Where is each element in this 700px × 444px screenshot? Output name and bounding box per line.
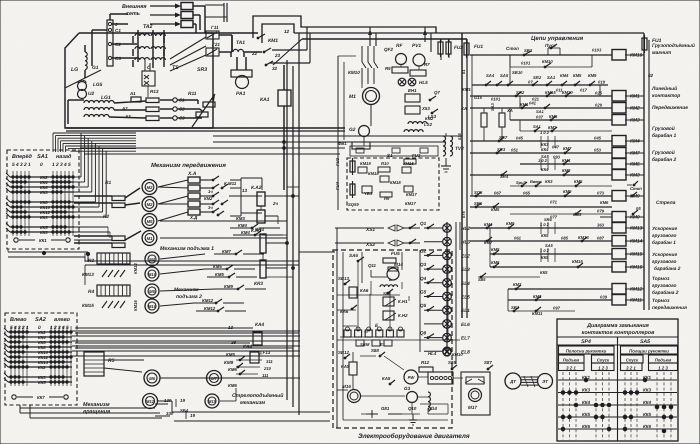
- svg-text:037: 037: [536, 115, 544, 120]
- svg-text:R7: R7: [424, 62, 430, 67]
- svg-text:КМ18: КМ18: [368, 171, 379, 176]
- svg-text:311: 311: [266, 359, 273, 364]
- svg-text:ЭТ: ЭТ: [542, 379, 548, 384]
- svg-text:061: 061: [514, 236, 522, 241]
- svg-text:SA6: SA6: [349, 253, 358, 258]
- svg-text:12: 12: [284, 29, 290, 34]
- svg-text:КМ5: КМ5: [226, 352, 235, 357]
- svg-text:М1: М1: [147, 236, 153, 241]
- svg-text:G3: G3: [404, 386, 411, 391]
- svg-text:363: 363: [597, 223, 605, 228]
- svg-text:23: 23: [274, 53, 281, 58]
- svg-text:КМ3: КМ3: [236, 216, 245, 221]
- svg-text:3: 3: [60, 162, 63, 168]
- svg-text:SQ59: SQ59: [348, 202, 359, 207]
- svg-text:КМ2: КМ2: [630, 106, 640, 112]
- svg-text:М17: М17: [468, 405, 477, 410]
- svg-text:087: 087: [597, 236, 605, 241]
- svg-text:КМ12: КМ12: [204, 306, 216, 311]
- svg-text:подъзма 2: подъзма 2: [176, 294, 202, 300]
- svg-text:Ускорение: Ускорение: [652, 226, 677, 232]
- svg-text:067: 067: [494, 191, 502, 196]
- svg-text:3 2 1: 3 2 1: [626, 366, 636, 371]
- svg-text:R10: R10: [381, 161, 389, 166]
- svg-text:SB3: SB3: [524, 48, 533, 53]
- svg-text:КА1: КА1: [260, 97, 270, 103]
- svg-text:Подъем: Подъем: [655, 358, 672, 363]
- svg-text:Вперёд: Вперёд: [12, 154, 32, 160]
- svg-text:сеть: сеть: [126, 11, 140, 17]
- svg-text:210: 210: [263, 366, 272, 371]
- svg-text:КК4: КК4: [541, 167, 549, 172]
- svg-text:М5: М5: [149, 289, 155, 294]
- svg-text:39: 39: [231, 340, 237, 345]
- svg-text:SА1: SА1: [533, 124, 542, 129]
- svg-text:2ч: 2ч: [272, 201, 278, 206]
- svg-text:SB13: SB13: [338, 276, 350, 281]
- svg-text:FU5: FU5: [391, 251, 400, 256]
- svg-text:SА1: SА1: [547, 75, 556, 80]
- svg-text:SВ10: SВ10: [512, 70, 523, 75]
- svg-text:КМ9: КМ9: [506, 221, 515, 226]
- svg-text:5: 5: [10, 325, 13, 331]
- svg-text:SА3: SА3: [490, 102, 495, 111]
- svg-text:041: 041: [529, 101, 537, 106]
- svg-text:FU3: FU3: [412, 153, 421, 158]
- svg-text:магнит: магнит: [652, 51, 672, 56]
- svg-text:КК2: КК2: [38, 365, 46, 370]
- svg-text:КК6: КК6: [582, 424, 591, 429]
- svg-text:19: 19: [190, 413, 195, 418]
- svg-text:барабана 2: барабана 2: [652, 290, 679, 296]
- svg-text:КМ5: КМ5: [215, 272, 224, 277]
- svg-text:G2: G2: [349, 127, 356, 133]
- svg-text:130: 130: [164, 398, 172, 403]
- svg-text:13: 13: [242, 188, 248, 193]
- svg-text:EL7: EL7: [461, 336, 470, 342]
- svg-text:КК4: КК4: [582, 400, 591, 405]
- svg-text:R13: R13: [150, 89, 159, 94]
- svg-text:5: 5: [66, 325, 69, 331]
- svg-text:TA2: TA2: [143, 24, 153, 30]
- svg-text:контактов контроллеров: контактов контроллеров: [582, 330, 655, 336]
- svg-text:G2: G2: [420, 248, 427, 253]
- svg-text:К.А2: К.А2: [251, 185, 262, 191]
- svg-text:L: L: [389, 277, 392, 282]
- svg-text:КМ10: КМ10: [348, 70, 360, 75]
- svg-text:М7: М7: [211, 376, 217, 381]
- svg-text:PA1: PA1: [236, 91, 246, 97]
- svg-text:Полщии рукоятки: Полщии рукоятки: [629, 349, 669, 354]
- svg-text:КМ4: КМ4: [241, 230, 250, 235]
- svg-text:М15: М15: [208, 399, 217, 404]
- svg-text:грузового: грузового: [652, 260, 677, 265]
- svg-text:КК5: КК5: [540, 270, 548, 275]
- svg-text:019: 019: [598, 80, 606, 85]
- svg-text:Х.А: Х.А: [187, 171, 197, 177]
- svg-text:085: 085: [561, 236, 569, 241]
- svg-text:барабана 2: барабана 2: [654, 266, 681, 272]
- svg-text:КК5: КК5: [582, 412, 591, 417]
- svg-text:FU2: FU2: [454, 45, 463, 51]
- svg-text:Спуск: Спуск: [626, 358, 639, 363]
- svg-text:Q10: Q10: [408, 406, 417, 411]
- svg-text:Q,F13: Q,F13: [258, 350, 271, 355]
- svg-text:Q11: Q11: [368, 263, 377, 268]
- svg-text:YВ3: YВ3: [364, 191, 373, 196]
- svg-text:Q7: Q7: [434, 90, 440, 95]
- svg-text:КМ7: КМ7: [630, 151, 640, 157]
- svg-text:Механизм: Механизм: [83, 402, 110, 408]
- svg-text:КМ9: КМ9: [224, 284, 233, 289]
- svg-text:FU1: FU1: [474, 44, 483, 50]
- svg-text:КМ8: КМ8: [491, 260, 500, 265]
- svg-text:3ч: 3ч: [208, 205, 213, 210]
- svg-text:1 2 3: 1 2 3: [658, 366, 668, 371]
- svg-text:КМ5: КМ5: [491, 207, 500, 212]
- svg-text:1: 1: [52, 162, 55, 168]
- svg-text:Механизм передвижения: Механизм передвижения: [151, 162, 226, 169]
- svg-text:КК4: КК4: [541, 147, 549, 152]
- svg-text:HL4: HL4: [428, 351, 437, 356]
- svg-text:КМ10: КМ10: [452, 352, 463, 357]
- svg-text:Полосни рукоятки: Полосни рукоятки: [566, 349, 607, 354]
- svg-text:S87: S87: [484, 360, 492, 365]
- svg-text:ДТ: ДТ: [509, 379, 516, 384]
- svg-text:КМ17: КМ17: [405, 201, 416, 206]
- svg-text:1 0 2: 1 0 2: [540, 130, 550, 135]
- svg-text:FU3: FU3: [335, 157, 340, 166]
- svg-text:SА4: SА4: [486, 73, 495, 78]
- svg-text:КК1: КК1: [39, 238, 47, 243]
- svg-text:R11: R11: [188, 91, 197, 97]
- svg-text:КМ9: КМ9: [224, 360, 234, 365]
- svg-text:КМ15: КМ15: [572, 259, 583, 264]
- svg-text:R5: R5: [385, 66, 391, 71]
- svg-text:КМ9: КМ9: [630, 215, 640, 221]
- svg-text:071: 071: [550, 200, 558, 205]
- svg-text:КМ7: КМ7: [222, 249, 231, 254]
- svg-text:01: 01: [461, 69, 466, 74]
- svg-text:Q1: Q1: [420, 221, 427, 226]
- svg-text:029: 029: [595, 103, 603, 108]
- svg-text:ЕН1: ЕН1: [408, 88, 417, 93]
- svg-text:КМ4: КМ4: [630, 139, 640, 145]
- svg-text:R12: R12: [421, 360, 430, 365]
- svg-text:SB12: SB12: [338, 350, 350, 355]
- svg-text:КМ19: КМ19: [360, 161, 371, 166]
- svg-text:051: 051: [511, 148, 519, 153]
- svg-text:вращения: вращения: [83, 409, 111, 415]
- svg-text:КА6: КА6: [360, 288, 369, 293]
- svg-text:1: 1: [28, 162, 31, 168]
- svg-text:Тормоз: Тормоз: [652, 276, 670, 282]
- svg-text:Стрелоподъёмный: Стрелоподъёмный: [232, 393, 284, 399]
- svg-text:SA2: SA2: [35, 317, 47, 323]
- svg-text:КМ4: КМ4: [560, 73, 569, 78]
- svg-text:М10: М10: [148, 272, 157, 277]
- svg-text:ФВ1: ФВ1: [338, 141, 347, 146]
- svg-text:111: 111: [262, 373, 269, 378]
- svg-text:М2: М2: [147, 202, 153, 207]
- svg-text:М6: М6: [149, 376, 155, 381]
- svg-text:07: 07: [528, 80, 533, 85]
- svg-text:КМ6: КМ6: [228, 367, 237, 372]
- svg-text:КМ3: КМ3: [630, 173, 640, 179]
- svg-text:Влево: Влево: [10, 317, 27, 323]
- svg-text:R5: R5: [108, 358, 115, 364]
- svg-text:Г11: Г11: [211, 25, 219, 30]
- svg-text:079: 079: [597, 209, 605, 214]
- svg-text:Линейный: Линейный: [651, 86, 677, 92]
- svg-text:Стрела: Стрела: [656, 200, 676, 206]
- svg-text:093: 093: [553, 155, 561, 160]
- svg-text:механизм: механизм: [240, 400, 265, 406]
- svg-text:КМ15: КМ15: [630, 252, 643, 258]
- svg-text:3 2 1: 3 2 1: [566, 366, 576, 371]
- svg-text:4: 4: [63, 162, 67, 168]
- svg-text:Грузовой: Грузовой: [652, 126, 675, 132]
- svg-text:1ч: 1ч: [208, 189, 213, 194]
- svg-text:Передвижение: Передвижение: [652, 105, 688, 111]
- svg-text:5: 5: [12, 162, 15, 168]
- svg-text:G81: G81: [381, 406, 390, 411]
- svg-text:Тормоз: Тормоз: [652, 298, 670, 304]
- svg-text:КА5: КА5: [382, 376, 391, 381]
- svg-text:LG5: LG5: [93, 82, 103, 88]
- svg-text:КМ13: КМ13: [630, 226, 643, 232]
- svg-text:Q8: Q8: [420, 331, 427, 336]
- svg-text:М5: М5: [147, 219, 153, 224]
- svg-text:3: 3: [18, 325, 21, 331]
- svg-text:КМ10: КМ10: [542, 59, 553, 64]
- svg-text:QF2: QF2: [384, 47, 393, 52]
- svg-text:КМ14: КМ14: [133, 263, 138, 274]
- svg-text:барабан 1: барабан 1: [652, 133, 677, 139]
- svg-text:КК6: КК6: [643, 424, 652, 429]
- svg-text:КА4: КА4: [255, 322, 264, 328]
- svg-text:Грузовой: Грузовой: [652, 150, 675, 156]
- svg-text:КМ10: КМ10: [630, 53, 643, 59]
- svg-text:КМ5: КМ5: [491, 247, 500, 252]
- svg-text:КМ3: КМ3: [630, 118, 640, 124]
- svg-text:039: 039: [600, 295, 608, 300]
- svg-text:КК7: КК7: [37, 395, 45, 400]
- svg-text:К.Н1: К.Н1: [398, 299, 408, 304]
- svg-text:02: 02: [648, 73, 654, 78]
- svg-text:HL5: HL5: [419, 80, 428, 85]
- svg-text:КМ12: КМ12: [202, 298, 214, 303]
- svg-text:0101: 0101: [491, 97, 501, 102]
- svg-text:1 2 3: 1 2 3: [598, 366, 608, 371]
- svg-text:Механизм подъэма 1: Механизм подъэма 1: [160, 246, 214, 252]
- svg-text:Электрооборудование двигателя: Электрооборудование двигателя: [358, 433, 470, 440]
- svg-text:A1: A1: [129, 91, 136, 96]
- svg-text:Г21: Г21: [212, 42, 220, 47]
- svg-text:Внешняя: Внешняя: [122, 4, 147, 10]
- svg-text:045: 045: [516, 136, 524, 141]
- svg-text:КМ16: КМ16: [133, 300, 138, 311]
- svg-text:G15: G15: [474, 95, 483, 100]
- svg-text:Х.Д: Х.Д: [189, 215, 198, 220]
- svg-text:025: 025: [595, 91, 603, 96]
- svg-text:G1: G1: [92, 65, 99, 71]
- svg-text:назад: назад: [56, 154, 72, 160]
- svg-text:Ускорение: Ускорение: [652, 252, 677, 258]
- svg-text:SR2: SR2: [533, 75, 542, 80]
- svg-text:КА4: КА4: [243, 344, 252, 350]
- svg-text:0: 0: [40, 162, 43, 168]
- svg-text:Спуск: Спуск: [597, 358, 610, 363]
- svg-text:влево: влево: [54, 317, 71, 323]
- svg-text:C1: C1: [115, 28, 121, 33]
- svg-text:017: 017: [580, 88, 588, 93]
- svg-text:073: 073: [597, 191, 605, 196]
- svg-text:КМ17: КМ17: [406, 192, 417, 197]
- svg-text:Q3: Q3: [420, 262, 427, 267]
- svg-text:КК5: КК5: [643, 412, 652, 417]
- svg-text:КК3: КК3: [40, 215, 48, 220]
- svg-text:SР4: SР4: [581, 339, 591, 345]
- svg-text:грузового: грузового: [652, 234, 677, 239]
- svg-text:1: 1: [26, 325, 29, 331]
- svg-text:ТV2: ТV2: [455, 146, 464, 152]
- svg-text:КМ12: КМ12: [630, 287, 643, 293]
- svg-text:Стоп: Стоп: [630, 186, 642, 191]
- svg-text:LS2: LS2: [424, 122, 433, 127]
- svg-text:TA1: TA1: [236, 40, 245, 46]
- svg-text:G5: G5: [420, 290, 427, 295]
- svg-text:КR3: КR3: [255, 227, 264, 233]
- svg-text:SА5: SА5: [640, 339, 650, 345]
- svg-text:ХА: ХА: [506, 108, 513, 113]
- svg-text:LG: LG: [71, 67, 78, 73]
- svg-text:КМ1: КМ1: [630, 94, 640, 100]
- svg-text:0103: 0103: [592, 48, 602, 53]
- svg-text:045: 045: [594, 136, 602, 141]
- svg-text:М2: М2: [147, 185, 153, 190]
- svg-text:КМ2: КМ2: [204, 196, 213, 201]
- svg-text:КМ18: КМ18: [390, 180, 401, 185]
- svg-text:035: 035: [457, 133, 462, 140]
- svg-text:3: 3: [58, 325, 61, 331]
- svg-text:КК4: КК4: [643, 400, 652, 405]
- svg-text:R2: R2: [103, 214, 109, 220]
- svg-text:Х53: Х53: [421, 106, 430, 111]
- svg-text:КМ11: КМ11: [532, 311, 543, 316]
- svg-text:R4: R4: [88, 289, 94, 295]
- svg-text:13: 13: [228, 325, 234, 330]
- svg-text:Вверх: Вверх: [530, 179, 543, 184]
- svg-text:Стоп: Стоп: [506, 46, 519, 51]
- svg-text:1: 1: [50, 325, 53, 331]
- svg-text:19: 19: [180, 398, 185, 403]
- svg-text:047: 047: [552, 145, 560, 150]
- svg-text:SA1: SA1: [37, 154, 48, 160]
- svg-text:КМ15: КМ15: [403, 161, 414, 166]
- svg-text:097: 097: [553, 306, 561, 311]
- svg-text:Грузоподъёмный: Грузоподъёмный: [652, 43, 695, 49]
- svg-text:EL6: EL6: [461, 322, 470, 328]
- svg-text:075: 075: [461, 211, 466, 218]
- svg-text:SR3: SR3: [197, 67, 207, 73]
- svg-text:2: 2: [55, 162, 59, 168]
- svg-text:Подъем: Подъем: [563, 358, 580, 363]
- svg-text:Q5: Q5: [420, 303, 427, 308]
- svg-text:передвижения: передвижения: [652, 305, 687, 311]
- svg-text:грузового: грузового: [652, 284, 677, 289]
- svg-text:R1: R1: [105, 180, 111, 186]
- svg-text:КМ6: КМ6: [600, 200, 609, 205]
- svg-text:КМ16: КМ16: [630, 265, 643, 271]
- svg-text:Цепи управления: Цепи управления: [531, 35, 584, 42]
- svg-text:М12: М12: [146, 399, 155, 404]
- svg-text:2: 2: [23, 162, 27, 168]
- svg-text:КК5: КК5: [38, 380, 46, 385]
- svg-text:SА1: SА1: [536, 109, 545, 114]
- svg-text:FU4: FU4: [335, 181, 340, 190]
- svg-text:U2: U2: [88, 91, 94, 97]
- svg-text:S85: S85: [448, 360, 456, 365]
- svg-text:32: 32: [272, 66, 278, 71]
- svg-text:065: 065: [523, 191, 531, 196]
- svg-text:КМ11: КМ11: [630, 298, 642, 304]
- svg-text:КК3: КК3: [40, 230, 48, 235]
- svg-text:К.Н2: К.Н2: [398, 313, 408, 318]
- svg-text:КК5: КК5: [541, 233, 549, 238]
- svg-text:Диаграмма замыкания: Диаграмма замыкания: [586, 323, 650, 329]
- svg-text:КМ9: КМ9: [588, 73, 597, 78]
- svg-text:КМ13: КМ13: [82, 272, 94, 277]
- svg-text:PV1: PV1: [412, 43, 421, 49]
- svg-text:LS3: LS3: [428, 114, 437, 119]
- svg-text:барабан 1: барабан 1: [652, 240, 676, 246]
- svg-text:КМ4: КМ4: [238, 223, 247, 228]
- svg-text:КК3: КК3: [643, 388, 652, 393]
- svg-text:SА5: SА5: [500, 73, 509, 78]
- svg-text:0101: 0101: [521, 61, 531, 66]
- svg-text:КМ7: КМ7: [484, 240, 493, 245]
- svg-text:КМ1: КМ1: [268, 38, 278, 44]
- svg-text:S1: S1: [387, 153, 393, 158]
- svg-text:КR3: КR3: [254, 281, 263, 287]
- svg-text:КК3: КК3: [545, 179, 553, 184]
- svg-text:контактор: контактор: [652, 94, 680, 99]
- svg-text:053: 053: [594, 148, 602, 153]
- svg-text:ХА: ХА: [460, 106, 467, 111]
- svg-text:5: 5: [68, 162, 71, 168]
- svg-text:1 0 2: 1 0 2: [538, 158, 548, 163]
- svg-text:КМ15: КМ15: [82, 303, 94, 308]
- svg-text:КК3: КК3: [582, 388, 591, 393]
- svg-text:Q4: Q4: [420, 276, 427, 281]
- svg-text:RF: RF: [396, 43, 403, 49]
- svg-text:S88: S88: [371, 348, 379, 353]
- svg-text:КМ2: КМ2: [513, 282, 522, 287]
- svg-text:КМ1: КМ1: [462, 87, 471, 92]
- svg-text:КМ6: КМ6: [228, 383, 237, 388]
- svg-text:М1: М1: [349, 94, 356, 100]
- svg-text:КМ5: КМ5: [573, 73, 582, 78]
- svg-text:КМ14: КМ14: [630, 239, 643, 245]
- svg-text:3: 3: [20, 162, 23, 168]
- svg-text:КК3: КК3: [40, 190, 48, 195]
- svg-text:барабан 2: барабан 2: [652, 157, 677, 163]
- svg-text:PW: PW: [408, 375, 416, 380]
- svg-text:C: C: [147, 65, 151, 71]
- svg-text:М10: М10: [148, 304, 157, 309]
- svg-text:4: 4: [15, 162, 19, 168]
